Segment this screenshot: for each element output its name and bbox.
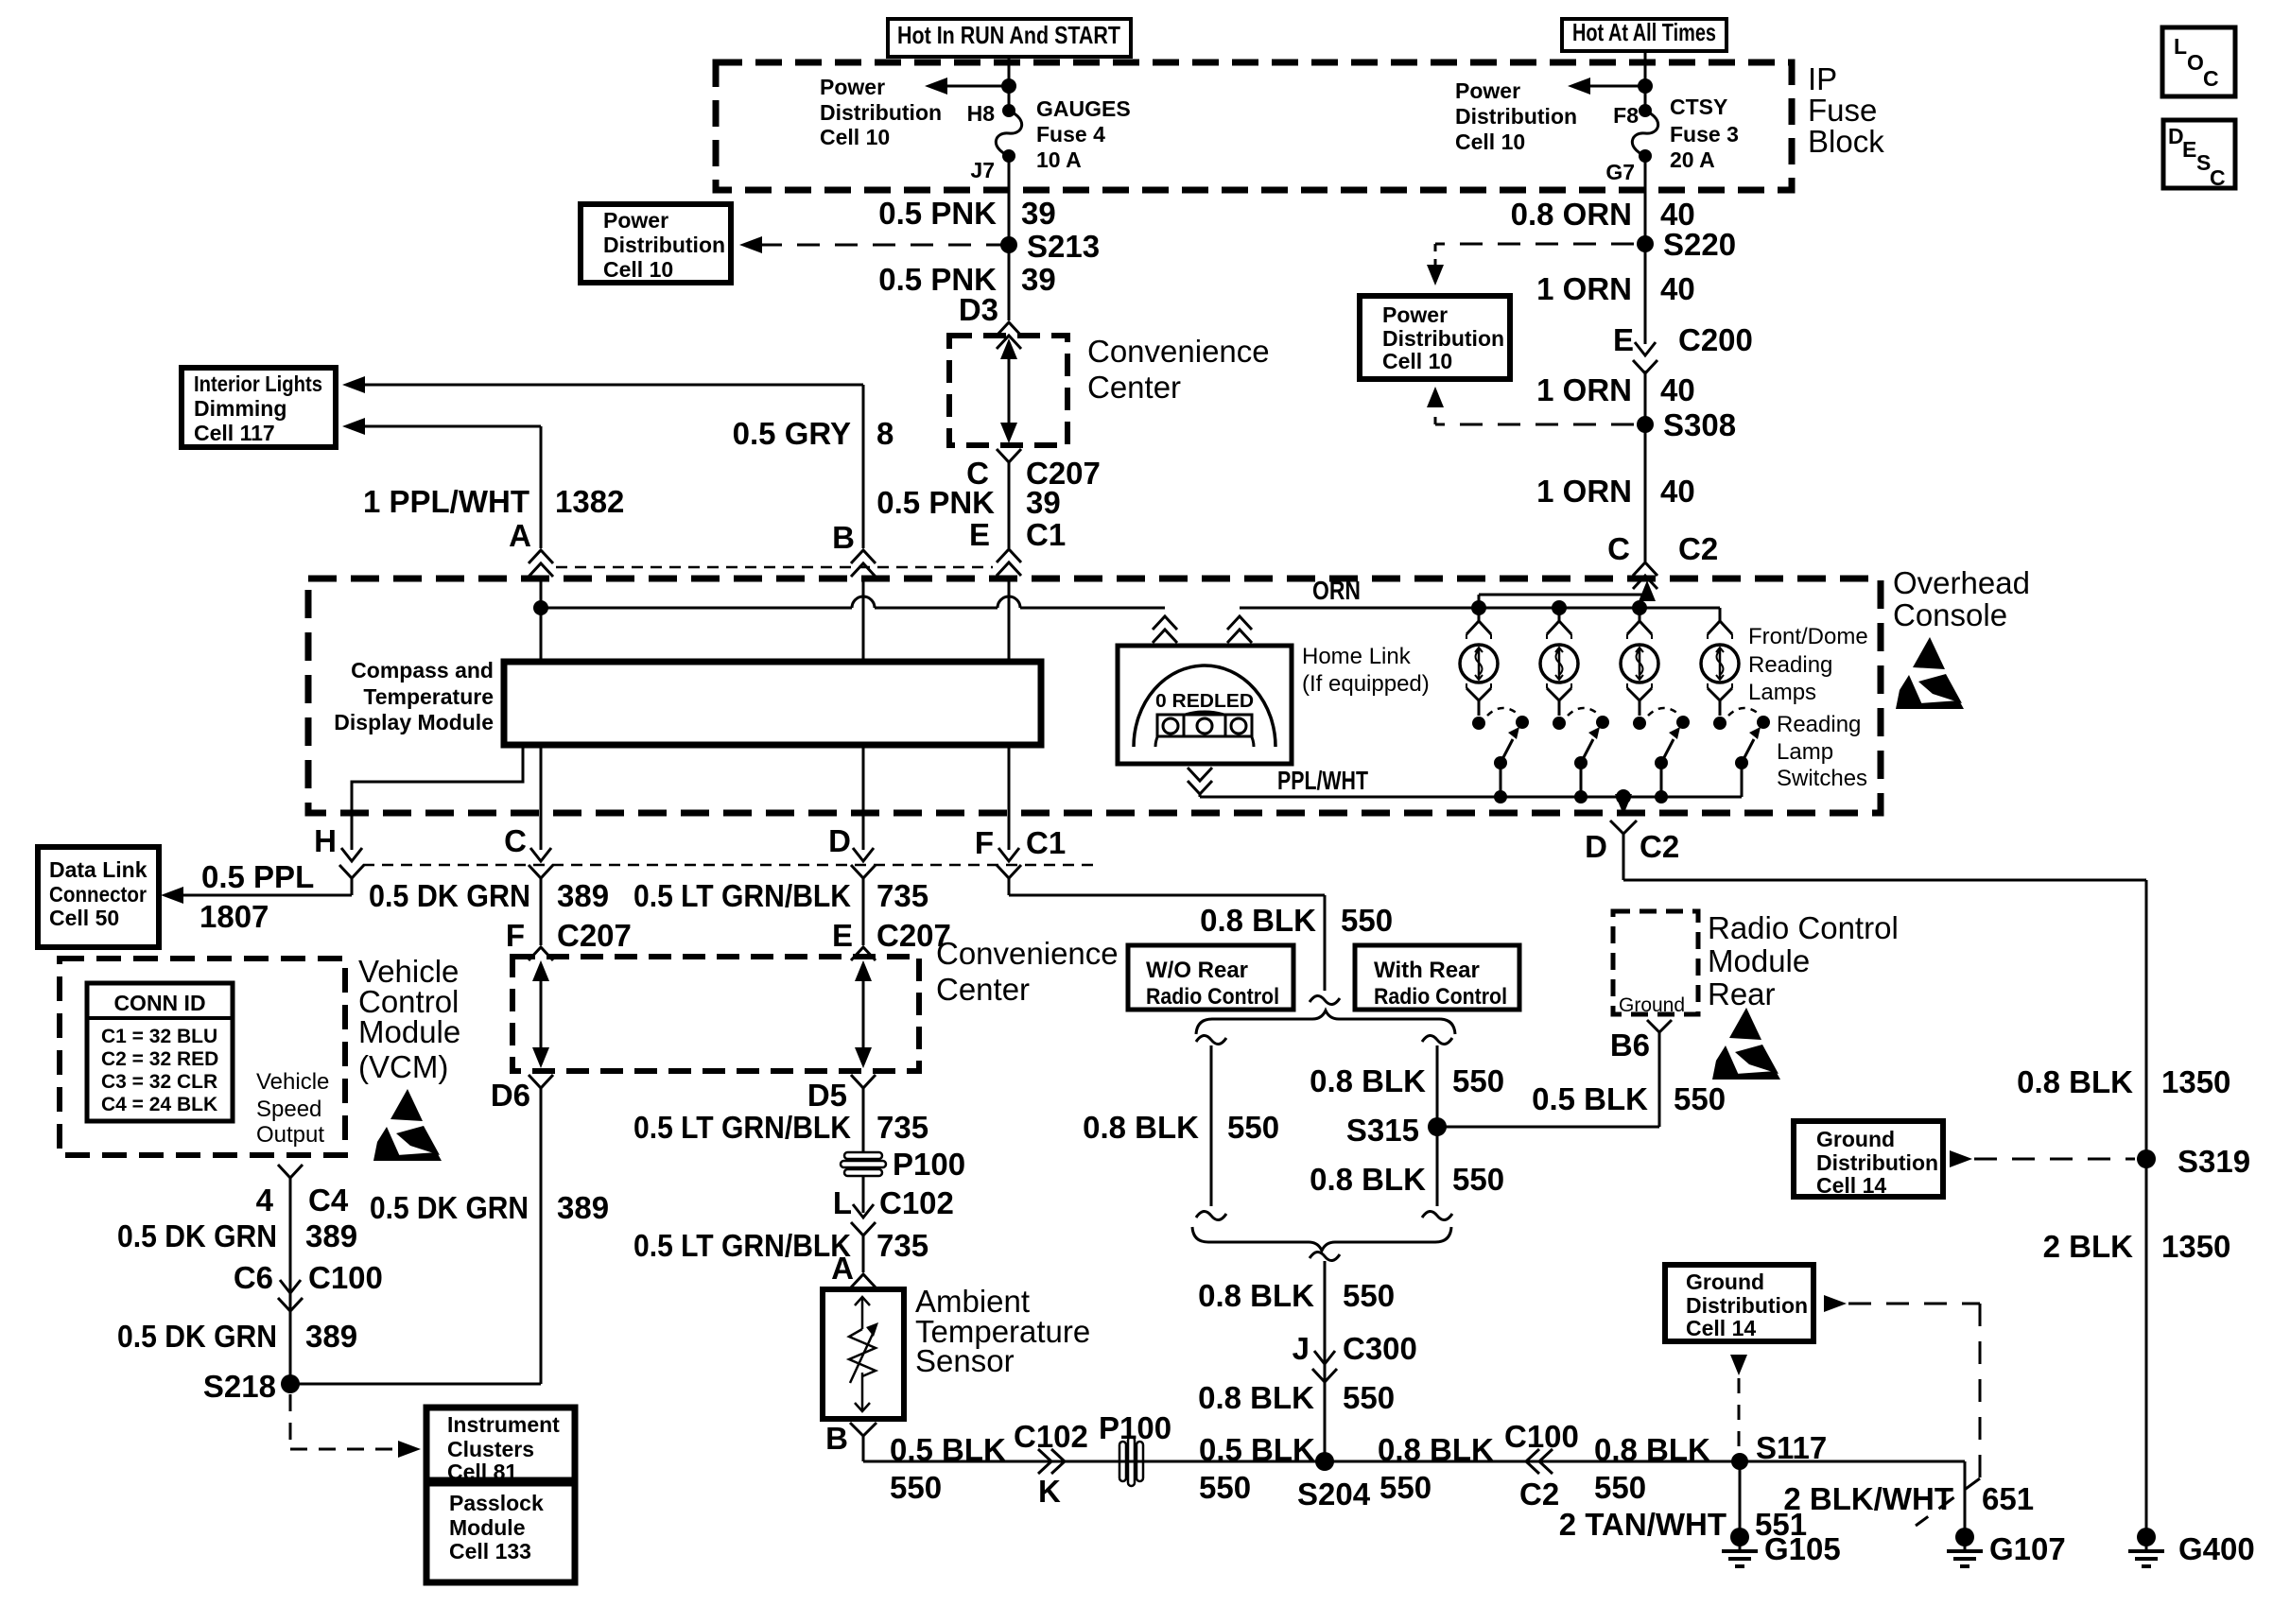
svg-text:P100: P100 [1099, 1410, 1171, 1445]
svg-text:Instrument: Instrument [447, 1412, 560, 1437]
svg-text:0.5 DK GRN: 0.5 DK GRN [369, 878, 530, 913]
wire S117 to G105 [1739, 1461, 1742, 1529]
svg-text:1350: 1350 [2161, 1229, 2230, 1264]
svg-text:C1: C1 [1026, 825, 1066, 860]
svg-text:E: E [1613, 322, 1634, 357]
svg-text:G105: G105 [1764, 1531, 1841, 1566]
connector arrow C [530, 848, 551, 861]
connector chevron D5 [851, 1075, 876, 1088]
svg-text:Hot In RUN And START: Hot In RUN And START [897, 21, 1120, 49]
splice S315 [1428, 1117, 1447, 1136]
svg-text:C200: C200 [1678, 322, 1753, 357]
connector chevron D6 [529, 1075, 553, 1088]
svg-text:Cell 10: Cell 10 [603, 257, 673, 282]
connector chevrons C6 C100 [280, 1280, 301, 1293]
wire from Hot At All Times to fuse 3 [1644, 51, 1647, 111]
ESD symbol (overhead console) [1913, 637, 1945, 669]
svg-text:1 PPL/WHT: 1 PPL/WHT [363, 484, 529, 519]
svg-text:Connector: Connector [49, 882, 147, 907]
svg-text:0.5 BLK: 0.5 BLK [1532, 1081, 1648, 1116]
Overhead Console dashed box [308, 579, 1881, 813]
splice S220 [1637, 235, 1654, 252]
svg-text:735: 735 [876, 1110, 928, 1145]
splice S117 [1731, 1453, 1748, 1470]
svg-text:Distribution: Distribution [820, 100, 942, 125]
svg-text:C2: C2 [1519, 1477, 1559, 1512]
svg-text:C1: C1 [1026, 517, 1066, 552]
svg-text:F: F [506, 918, 525, 953]
wire D6 to S218 corner [540, 1088, 543, 1384]
brace (alternatives open) [1196, 1011, 1455, 1034]
svg-text:Interior Lights: Interior Lights [194, 371, 322, 396]
svg-text:L: L [833, 1185, 852, 1220]
svg-text:0.5 LT GRN/BLK: 0.5 LT GRN/BLK [633, 878, 851, 913]
svg-text:Lamp: Lamp [1777, 739, 1833, 765]
wire from Hot In RUN And START to fuse 4 [1008, 57, 1011, 111]
wire ORN bus to Home Link [1020, 607, 1165, 610]
svg-text:Vehicle: Vehicle [256, 1069, 329, 1095]
connector chevrons at C200 [1635, 342, 1656, 355]
wire hop over B column [852, 596, 875, 608]
svg-text:Power: Power [603, 208, 668, 233]
splice S319 [2137, 1149, 2156, 1168]
svg-text:Cell 10: Cell 10 [1382, 349, 1452, 373]
wire ORN bus mid segment [875, 607, 998, 610]
Convenience Center dashed box (top) [949, 336, 1067, 445]
box Ground Distribution Cell 14 (lower) [1665, 1265, 1813, 1341]
dashed wire Ground Distribution to G107 [1824, 1295, 1847, 1312]
svg-text:1382: 1382 [555, 484, 624, 519]
connector chevrons at A [529, 550, 553, 563]
wire H to Data Link Connector [351, 878, 354, 895]
svg-text:C1 = 32 BLU: C1 = 32 BLU [101, 1026, 217, 1047]
svg-text:S213: S213 [1027, 229, 1100, 264]
svg-text:(If equipped): (If equipped) [1302, 671, 1430, 697]
svg-text:ORN: ORN [1312, 576, 1361, 605]
svg-text:C4: C4 [308, 1183, 349, 1218]
DESC legend box [2163, 120, 2235, 188]
wire fuse4 to S213 [1008, 156, 1011, 320]
svg-text:A: A [831, 1251, 854, 1286]
connector chevron VCM output [278, 1165, 303, 1178]
svg-text:0.8 BLK: 0.8 BLK [1200, 903, 1316, 938]
svg-text:D: D [828, 823, 851, 858]
svg-text:0.5 PPL: 0.5 PPL [201, 859, 314, 894]
svg-text:389: 389 [305, 1319, 357, 1354]
switch S4 reading lamp switch [1713, 717, 1726, 730]
svg-text:Ground: Ground [1686, 1270, 1764, 1294]
switch S2 reading lamp switch [1553, 717, 1566, 730]
svg-text:550: 550 [1594, 1470, 1646, 1505]
connector line C207 (thin dashed) [363, 864, 1097, 867]
svg-text:L: L [2174, 34, 2187, 59]
connector chevron below lamp 3 [1627, 688, 1652, 700]
svg-text:0.8 BLK: 0.8 BLK [1310, 1063, 1426, 1098]
connector arrow H [341, 848, 362, 861]
wire ORN bus right segment [1240, 607, 1720, 610]
svg-text:0.8 BLK: 0.8 BLK [1198, 1278, 1314, 1313]
svg-text:Ground: Ground [1619, 994, 1685, 1016]
wire A into module [540, 577, 543, 662]
wire hop over E column [998, 596, 1020, 608]
svg-text:0.5 GRY: 0.5 GRY [733, 416, 851, 451]
lamp E3 front/dome reading lamp [1621, 645, 1658, 682]
wire F C1 to radio control branch [1008, 878, 1011, 895]
header box Hot At All Times [1562, 19, 1726, 51]
connector chevrons Home Link pin2 [1227, 616, 1252, 630]
connector chevron below lamp 1 [1466, 688, 1491, 700]
switch S3 reading lamp switch [1633, 717, 1646, 730]
ESD symbol (radio control module) [1729, 1008, 1761, 1040]
svg-text:D: D [1585, 829, 1607, 864]
svg-text:Hot At All Times: Hot At All Times [1572, 18, 1716, 46]
wire w/o rear radio control path [1210, 1045, 1213, 1206]
svg-text:C3 = 32 CLR: C3 = 32 CLR [101, 1071, 217, 1093]
svg-text:Ground: Ground [1816, 1127, 1895, 1151]
connector chevron E C207 [851, 947, 876, 960]
svg-text:0.8 BLK: 0.8 BLK [1310, 1162, 1426, 1197]
wire D to E C207 [862, 878, 865, 945]
box Data Link Connector Cell 50 [38, 847, 159, 947]
svg-text:1 ORN: 1 ORN [1536, 271, 1632, 306]
connector chevrons J C300 [1314, 1351, 1335, 1364]
Compass and Temperature Display Module box [504, 662, 1041, 745]
splice S308 [1637, 416, 1654, 433]
svg-text:S308: S308 [1663, 407, 1736, 442]
svg-text:Radio Control: Radio Control [1146, 984, 1279, 1010]
svg-text:Cell 14: Cell 14 [1686, 1316, 1756, 1340]
connector arrow F [998, 848, 1019, 861]
lamp E2 front/dome reading lamp [1540, 645, 1578, 682]
svg-text:Sensor: Sensor [915, 1343, 1015, 1378]
dashed wire Ground Distribution to S319 [1950, 1150, 1972, 1167]
svg-text:651: 651 [1982, 1481, 2034, 1516]
svg-text:40: 40 [1660, 372, 1695, 407]
wire through conv center (E) [862, 966, 865, 1063]
svg-text:Center: Center [936, 972, 1030, 1007]
svg-text:P100: P100 [893, 1147, 965, 1182]
connector chevron F C207 [529, 947, 553, 960]
svg-text:Fuse 3: Fuse 3 [1670, 122, 1739, 147]
svg-text:B6: B6 [1610, 1028, 1650, 1063]
lamp E1 front/dome reading lamp [1460, 645, 1498, 682]
svg-text:Cell 14: Cell 14 [1816, 1173, 1886, 1198]
svg-text:Reading: Reading [1748, 652, 1832, 678]
wire ground bus (sensor to S117) [863, 1460, 1965, 1463]
svg-text:39: 39 [1021, 196, 1056, 231]
wire compass F lead [1008, 745, 1011, 850]
svg-text:B: B [825, 1421, 848, 1456]
svg-text:Cell 10: Cell 10 [820, 125, 890, 149]
connector P100 (pass-through grommet) [844, 1152, 882, 1159]
svg-text:C100: C100 [308, 1260, 383, 1295]
svg-text:F8: F8 [1613, 103, 1639, 128]
connector chevron above lamp 4 [1708, 621, 1732, 634]
svg-text:G107: G107 [1989, 1531, 2066, 1566]
svg-text:Data Link: Data Link [49, 857, 147, 882]
wire lamp 3 switch to PPL bus [1660, 763, 1663, 797]
svg-text:Passlock: Passlock [449, 1491, 544, 1515]
svg-text:39: 39 [1021, 262, 1056, 297]
wire B to Interior Lights (arrow) [359, 384, 863, 387]
connector line C1 (thin dashed) [556, 566, 993, 569]
svg-text:0.8 BLK: 0.8 BLK [1083, 1110, 1199, 1145]
svg-text:550: 550 [1452, 1063, 1504, 1098]
wire branch to Power Distribution (left) [942, 85, 1009, 88]
svg-text:S117: S117 [1756, 1430, 1827, 1465]
svg-text:39: 39 [1026, 485, 1061, 520]
svg-text:550: 550 [890, 1470, 942, 1505]
wire corner feed lamp 4 [1719, 608, 1722, 621]
wire C207 to E C1 [1008, 462, 1011, 548]
dashed wire S308 to Power Distribution cell [1435, 423, 1634, 426]
svg-text:Cell 10: Cell 10 [1455, 130, 1525, 154]
svg-text:Clusters: Clusters [447, 1437, 534, 1461]
splice S218 [281, 1374, 300, 1393]
svg-text:2 BLK: 2 BLK [2043, 1229, 2134, 1264]
box Instrument Clusters Cell 81 [426, 1408, 575, 1480]
svg-text:0.8 BLK: 0.8 BLK [2017, 1064, 2133, 1099]
connector chevrons at C C2 [1633, 562, 1657, 576]
wire B into module [862, 577, 865, 662]
svg-text:K: K [1038, 1474, 1061, 1509]
svg-text:0.5 LT GRN/BLK: 0.5 LT GRN/BLK [633, 1110, 851, 1145]
connector arrow D [853, 848, 874, 861]
connector chevrons below Home Link [1188, 768, 1212, 781]
svg-text:Power: Power [1455, 78, 1520, 103]
svg-text:2 TAN/WHT: 2 TAN/WHT [1559, 1507, 1726, 1542]
svg-text:B: B [832, 520, 855, 555]
break symbol w/o-rear wire [1196, 1035, 1226, 1044]
wire with rear radio control path [1436, 1045, 1439, 1206]
wire branch to Power Distribution (right) [1585, 85, 1645, 88]
box Passlock Module Cell 133 [426, 1483, 575, 1582]
splice S204 [1315, 1452, 1334, 1471]
svg-text:(VCM): (VCM) [358, 1049, 448, 1084]
wire B column upper [862, 385, 865, 548]
svg-text:Module: Module [358, 1014, 460, 1049]
svg-text:C: C [2210, 165, 2226, 190]
svg-text:D5: D5 [807, 1078, 847, 1113]
svg-text:Distribution: Distribution [1686, 1293, 1808, 1318]
wire A to Interior Lights (arrow) [359, 425, 541, 428]
svg-text:550: 550 [1379, 1470, 1431, 1505]
svg-text:0.5 PNK: 0.5 PNK [876, 485, 995, 520]
box Interior Lights Dimming Cell 117 [182, 368, 336, 447]
wire S117 to G107 [1964, 1461, 1967, 1529]
connector chevrons Home Link pin1 [1153, 616, 1177, 630]
wire through Convenience Center [1008, 346, 1011, 437]
connector chevrons at B [851, 550, 876, 563]
svg-text:Convenience: Convenience [1087, 334, 1270, 369]
node switch 1 on PPL bus [1494, 790, 1507, 803]
svg-text:10 A: 10 A [1036, 147, 1082, 172]
svg-text:Output: Output [256, 1122, 324, 1148]
wire lamp 2 switch to PPL bus [1580, 763, 1583, 797]
connector chevron above lamp 3 [1627, 621, 1652, 634]
wire branch to D connector [1622, 797, 1625, 802]
svg-text:389: 389 [305, 1218, 357, 1253]
box W/O Rear Radio Control [1128, 945, 1293, 1010]
svg-text:J7: J7 [970, 158, 995, 182]
svg-text:C102: C102 [1014, 1419, 1088, 1454]
svg-text:S319: S319 [2178, 1144, 2250, 1179]
svg-text:550: 550 [1452, 1162, 1504, 1197]
svg-text:With Rear: With Rear [1374, 958, 1480, 983]
svg-text:Module: Module [1708, 943, 1810, 978]
wire VCM speed output [289, 1178, 292, 1384]
dashed wire S213 to Power Distribution [756, 244, 1009, 247]
box Power Distribution Cell 10 (right) [1360, 296, 1510, 379]
svg-text:20 A: 20 A [1670, 147, 1715, 172]
wire C200 to S308 [1644, 371, 1647, 561]
node lamp feed 1 [1471, 600, 1486, 615]
svg-text:C100: C100 [1504, 1419, 1579, 1454]
svg-text:E: E [969, 517, 990, 552]
break symbol below brace [1310, 1252, 1340, 1260]
svg-text:0.5 BLK: 0.5 BLK [890, 1432, 1006, 1467]
svg-text:S218: S218 [203, 1369, 276, 1404]
svg-text:1350: 1350 [2161, 1064, 2230, 1099]
svg-text:735: 735 [876, 878, 928, 913]
svg-text:40: 40 [1660, 271, 1695, 306]
svg-text:Distribution: Distribution [603, 233, 725, 257]
wire PPL/WHT bus [1199, 794, 1202, 797]
svg-text:40: 40 [1660, 474, 1695, 509]
svg-text:GAUGES: GAUGES [1036, 96, 1131, 121]
header box Hot In RUN And START [888, 19, 1131, 57]
wire feed lamp 2 [1558, 608, 1561, 621]
svg-text:0.8 BLK: 0.8 BLK [1198, 1380, 1314, 1415]
svg-text:CONN ID: CONN ID [113, 991, 205, 1015]
svg-text:0.5 DK GRN: 0.5 DK GRN [117, 1218, 277, 1253]
svg-text:S315: S315 [1346, 1113, 1419, 1148]
wire branch to C2 connector [1478, 595, 1481, 608]
ground G105 [1730, 1528, 1749, 1546]
svg-text:550: 550 [1674, 1081, 1726, 1116]
svg-text:Radio Control: Radio Control [1708, 910, 1899, 945]
svg-text:Radio Control: Radio Control [1374, 984, 1507, 1010]
ground G400 [2137, 1528, 2156, 1546]
connector chevrons L C102 [853, 1204, 874, 1218]
svg-text:Convenience: Convenience [936, 936, 1119, 971]
svg-text:0.5 DK GRN: 0.5 DK GRN [370, 1190, 529, 1225]
wire branch down to radio split [1324, 895, 1327, 991]
svg-text:Speed: Speed [256, 1097, 321, 1122]
wire lamp 1 switch to PPL bus [1500, 763, 1502, 797]
wire P100 to L C102 [862, 1176, 865, 1213]
dashed wire Ground Distribution to S117 [1730, 1355, 1747, 1375]
svg-text:0.5 DK GRN: 0.5 DK GRN [117, 1319, 277, 1354]
svg-text:G7: G7 [1605, 160, 1635, 184]
wire lamp 4 switch to PPL bus corner [1741, 763, 1744, 797]
svg-text:C4 = 24 BLK: C4 = 24 BLK [101, 1094, 217, 1115]
svg-text:Front/Dome: Front/Dome [1748, 624, 1868, 649]
svg-text:0.5 BLK: 0.5 BLK [1199, 1432, 1315, 1467]
wire D5 to P100 [862, 1088, 865, 1151]
wire fuse3 to S220 [1644, 156, 1647, 344]
svg-text:Overhead: Overhead [1893, 565, 2030, 600]
svg-text:0.5 LT GRN/BLK: 0.5 LT GRN/BLK [633, 1228, 851, 1263]
node junction on A wire [533, 600, 548, 615]
svg-text:C: C [2203, 66, 2219, 91]
svg-text:Home Link: Home Link [1302, 644, 1412, 669]
wire D C2 to right bus [1622, 841, 1625, 880]
svg-text:D3: D3 [959, 292, 998, 327]
fuse F1 GAUGES Fuse 4 [1002, 104, 1015, 117]
connector chevron D C2 [1610, 821, 1637, 834]
svg-text:Distribution: Distribution [1382, 326, 1504, 351]
node junction at F8 feed [1638, 78, 1653, 94]
dashed wire S218 to Instrument Clusters [289, 1394, 292, 1449]
svg-text:C207: C207 [557, 918, 632, 953]
wire S315 to radio control module rear [1437, 1126, 1659, 1129]
svg-text:0.8 ORN: 0.8 ORN [1511, 197, 1632, 232]
svg-text:Display Module: Display Module [334, 710, 494, 734]
ground G107 [1955, 1528, 1974, 1546]
svg-text:O: O [2187, 50, 2204, 75]
svg-text:C6: C6 [234, 1260, 273, 1295]
svg-text:550: 550 [1199, 1470, 1251, 1505]
connector chevron below Convenience Center [997, 449, 1021, 462]
svg-text:C300: C300 [1343, 1331, 1417, 1366]
connector C100 chevrons (bottom) [1526, 1449, 1539, 1474]
svg-text:Rear: Rear [1708, 976, 1776, 1011]
connector chevron below lamp 4 [1708, 688, 1732, 700]
svg-text:389: 389 [557, 878, 609, 913]
svg-text:Fuse: Fuse [1808, 93, 1877, 128]
svg-text:Lamps: Lamps [1748, 680, 1816, 705]
wire E into module [1008, 579, 1011, 662]
svg-text:C102: C102 [879, 1185, 954, 1220]
node switch 2 on PPL bus [1574, 790, 1588, 803]
wire C102 to ambient sensor [862, 1234, 865, 1272]
svg-text:Distribution: Distribution [1455, 104, 1577, 129]
svg-text:Distribution: Distribution [1816, 1150, 1938, 1175]
Home Link display module [1118, 646, 1292, 764]
svg-text:550: 550 [1343, 1380, 1395, 1415]
box Power Distribution Cell 10 (S213) [581, 204, 731, 283]
svg-text:1 ORN: 1 ORN [1536, 372, 1632, 407]
connector chevron below lamp 2 [1547, 688, 1571, 700]
brace (alternatives close) [1192, 1227, 1451, 1251]
wire compass H stub [352, 745, 523, 850]
wire C to F C207 [540, 878, 543, 945]
Vehicle Control Module dashed box [60, 959, 345, 1155]
switch S1 reading lamp switch [1472, 717, 1485, 730]
svg-text:735: 735 [876, 1228, 928, 1263]
svg-text:C2 = 32 RED: C2 = 32 RED [101, 1048, 218, 1070]
svg-text:Block: Block [1808, 124, 1884, 159]
svg-text:0 REDLED: 0 REDLED [1155, 691, 1254, 712]
svg-text:0.8 BLK: 0.8 BLK [1594, 1432, 1710, 1467]
svg-text:550: 550 [1341, 903, 1393, 938]
Radio Control Module Rear dashed box [1613, 911, 1698, 1014]
svg-text:550: 550 [1227, 1110, 1279, 1145]
svg-text:W/O Rear: W/O Rear [1146, 958, 1248, 983]
svg-text:C: C [504, 823, 527, 858]
svg-text:Cell 133: Cell 133 [449, 1539, 531, 1564]
svg-text:Reading: Reading [1777, 712, 1861, 737]
svg-text:C2: C2 [1678, 531, 1718, 566]
break symbol w/o-rear wire bottom [1196, 1211, 1226, 1219]
svg-text:E: E [2182, 137, 2196, 162]
lamp E4 front/dome reading lamp [1701, 645, 1739, 682]
connector chevrons at D3 [997, 322, 1021, 336]
svg-text:0.5 PNK: 0.5 PNK [878, 196, 997, 231]
box Ground Distribution Cell 14 (upper) [1794, 1121, 1943, 1197]
splice S213 [1000, 236, 1017, 253]
